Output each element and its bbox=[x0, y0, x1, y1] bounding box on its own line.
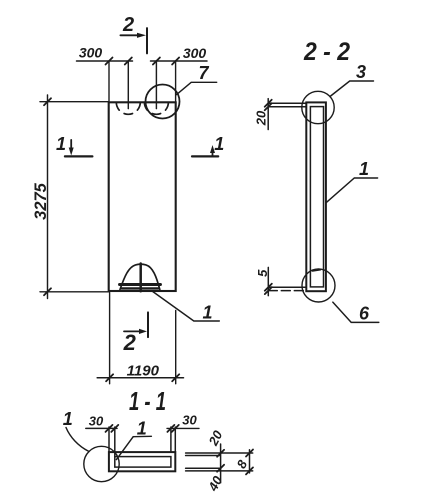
section mark 2 top bbox=[120, 14, 147, 53]
section 1-1 inner channel bbox=[115, 457, 171, 468]
detail circle 6 bbox=[302, 269, 335, 302]
extension line 1190 left bbox=[109, 293, 111, 384]
detail circle 3 bbox=[302, 91, 334, 123]
dimension 3275 bbox=[40, 95, 109, 299]
section mark 2 bottom bbox=[123, 312, 148, 355]
svg-text:20: 20 bbox=[253, 110, 268, 126]
svg-text:1: 1 bbox=[56, 134, 66, 154]
section mark 1 right bbox=[192, 134, 224, 156]
dimension line 1190 bbox=[97, 374, 183, 381]
lifting notch left (dashed arc) bbox=[116, 102, 140, 114]
svg-text:2: 2 bbox=[123, 330, 137, 355]
dimension line 20/40 (1-1) bbox=[217, 444, 224, 483]
svg-text:3: 3 bbox=[356, 62, 366, 82]
dimension 30 right (1-1) bbox=[167, 413, 199, 453]
svg-text:1: 1 bbox=[202, 303, 212, 323]
svg-text:1190: 1190 bbox=[127, 363, 160, 380]
svg-text:30: 30 bbox=[89, 414, 104, 429]
leader label 1 (1-1 channel) bbox=[116, 419, 151, 460]
leader to label 3 bbox=[330, 81, 374, 97]
detail circle (1-1 left end) bbox=[84, 446, 119, 481]
leader from label 1 to circle bbox=[66, 428, 89, 452]
svg-text:2 - 2: 2 - 2 bbox=[303, 38, 350, 66]
svg-text:2: 2 bbox=[122, 14, 134, 36]
leader to label 7 bbox=[177, 82, 217, 94]
detail circle 7 bbox=[146, 85, 180, 119]
dimension 20 (2-2 top) bbox=[265, 99, 307, 130]
extension line 1190 right bbox=[175, 311, 177, 384]
section 1-1 outer profile bbox=[109, 452, 175, 471]
svg-text:300: 300 bbox=[79, 45, 103, 61]
svg-text:1: 1 bbox=[359, 159, 369, 179]
svg-text:30: 30 bbox=[182, 413, 197, 428]
dimension line 300 left bbox=[77, 58, 133, 65]
svg-text:6: 6 bbox=[359, 304, 370, 324]
dimension 5 (2-2 bottom) bbox=[265, 267, 307, 295]
section 2-2 outer profile bbox=[306, 102, 326, 291]
section mark 1 left bbox=[56, 134, 92, 156]
extension line panel right top bbox=[175, 61, 177, 101]
svg-text:1: 1 bbox=[214, 134, 224, 154]
svg-text:5: 5 bbox=[255, 269, 270, 277]
leader to label 6 bbox=[333, 302, 379, 322]
svg-text:40: 40 bbox=[205, 473, 226, 494]
extension line panel left top bbox=[108, 61, 110, 101]
svg-text:7: 7 bbox=[198, 63, 209, 83]
leader to label 1 right bbox=[326, 178, 378, 203]
svg-text:1 - 1: 1 - 1 bbox=[129, 386, 166, 416]
lifting notch right (dashed arc) bbox=[144, 102, 168, 114]
dimension 30 left (1-1) bbox=[86, 414, 119, 457]
notch right centerline bbox=[155, 61, 157, 109]
svg-text:8: 8 bbox=[234, 457, 251, 471]
svg-text:1: 1 bbox=[63, 409, 73, 429]
svg-text:1: 1 bbox=[137, 419, 147, 439]
svg-text:20: 20 bbox=[205, 427, 226, 448]
notch left centerline bbox=[127, 61, 129, 109]
anchor loop (bell shape at panel bottom) bbox=[120, 264, 161, 292]
channel inner dash bbox=[313, 270, 321, 271]
dimension line 300 right bbox=[151, 58, 208, 65]
svg-text:300: 300 bbox=[183, 45, 207, 61]
dimension line 8 (1-1) bbox=[246, 450, 253, 475]
section 2-2 inner channel bbox=[310, 107, 323, 287]
extension lines right of section 1-1 bbox=[186, 453, 253, 471]
panel outline (front view) bbox=[109, 102, 176, 291]
svg-text:3275: 3275 bbox=[32, 182, 50, 220]
leader to label 1 bottom bbox=[152, 291, 219, 321]
